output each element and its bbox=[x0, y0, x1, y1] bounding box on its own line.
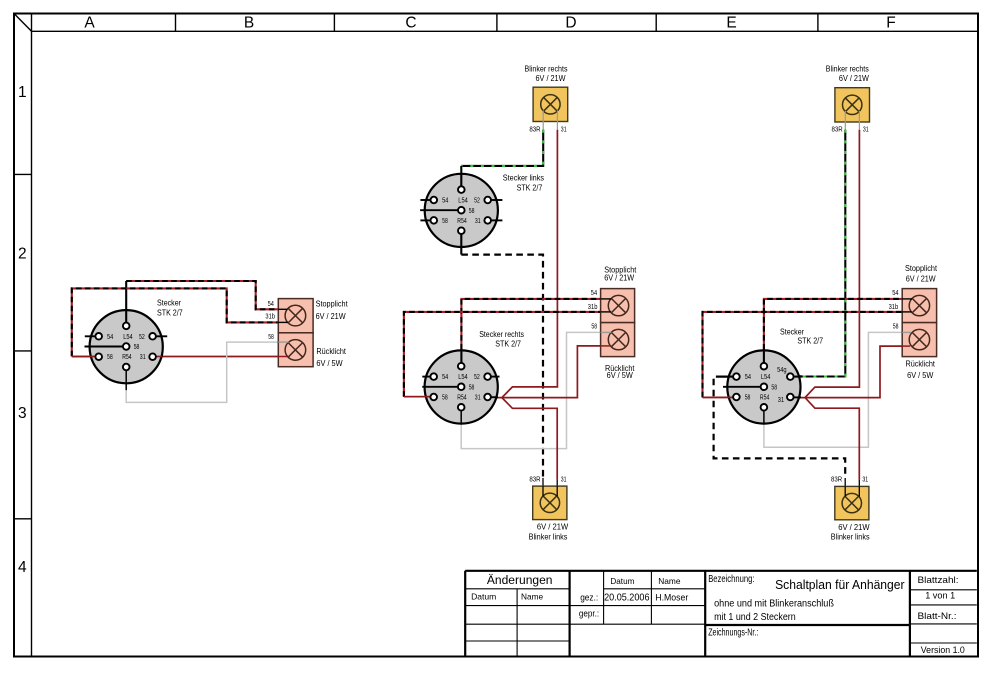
wire green: Blinker rechts 83R to Stecker links top pin bbox=[461, 130, 543, 166]
svg-text:Blinker links: Blinker links bbox=[831, 532, 870, 541]
svg-text:52: 52 bbox=[139, 334, 145, 341]
svg-text:54: 54 bbox=[892, 290, 898, 297]
frame top row divider bbox=[32, 30, 979, 32]
svg-text:Blatt-Nr.:: Blatt-Nr.: bbox=[918, 610, 957, 621]
svg-text:3: 3 bbox=[18, 405, 27, 422]
svg-text:6V / 5W: 6V / 5W bbox=[316, 359, 343, 368]
svg-text:STK 2/7: STK 2/7 bbox=[157, 308, 183, 317]
svg-text:52: 52 bbox=[474, 374, 480, 381]
svg-text:H.Moser: H.Moser bbox=[655, 592, 689, 603]
svg-text:Version 1.0: Version 1.0 bbox=[921, 645, 965, 656]
lamp symbol Ruecklicht right bbox=[909, 329, 929, 349]
lamp box Stopplicht/Ruecklicht right bbox=[902, 289, 936, 323]
lamp symbol Blinker links middle bbox=[540, 493, 559, 512]
column tick C/D bbox=[496, 14, 498, 32]
svg-text:Zeichnungs-Nr.:: Zeichnungs-Nr.: bbox=[708, 628, 758, 639]
svg-text:6V / 5W: 6V / 5W bbox=[907, 371, 934, 380]
lamp symbol Stopplicht right bbox=[909, 295, 929, 315]
svg-text:58: 58 bbox=[771, 385, 777, 392]
svg-text:Datum: Datum bbox=[471, 592, 496, 602]
svg-text:31: 31 bbox=[561, 476, 567, 483]
title block Blattzahl row lines bbox=[910, 589, 977, 591]
column tick E/F bbox=[817, 14, 819, 32]
svg-text:Änderungen: Änderungen bbox=[487, 575, 553, 587]
terminal stubs inside left box bbox=[278, 308, 287, 310]
wire red: Blinker rechts 31 down to pin 31 (fan) right bbox=[795, 130, 859, 398]
svg-text:58: 58 bbox=[469, 385, 475, 392]
svg-text:R54: R54 bbox=[122, 354, 132, 361]
svg-text:31b: 31b bbox=[265, 314, 275, 321]
title block horizontal row lines bbox=[465, 588, 569, 590]
svg-text:83R: 83R bbox=[529, 476, 540, 483]
svg-text:6V / 21W: 6V / 21W bbox=[537, 522, 569, 531]
wire red: left corner to pin 58 bbox=[72, 356, 99, 358]
column tick A/B bbox=[175, 14, 177, 32]
column tick B/C bbox=[333, 14, 335, 32]
svg-text:Name: Name bbox=[521, 592, 543, 602]
svg-text:83R: 83R bbox=[832, 126, 843, 133]
svg-text:gez.:: gez.: bbox=[580, 593, 598, 603]
svg-text:L54: L54 bbox=[123, 334, 133, 341]
svg-text:ohne und mit Blinkeranschluß: ohne und mit Blinkeranschluß bbox=[714, 599, 834, 610]
svg-text:31: 31 bbox=[862, 476, 868, 483]
svg-text:Stopplicht: Stopplicht bbox=[316, 300, 349, 309]
frame left column divider bbox=[31, 14, 33, 657]
wire gray: Stecker rechts bottom pin to Ruecklicht 58 middle bbox=[460, 410, 462, 423]
column tick D/E bbox=[655, 14, 657, 32]
svg-text:58: 58 bbox=[442, 218, 448, 225]
wire red: fan down to Blinker links 31 bbox=[502, 398, 557, 480]
title block vertical Aenderungen/gez boundary bbox=[568, 571, 570, 657]
svg-text:54: 54 bbox=[442, 374, 448, 381]
svg-text:B: B bbox=[244, 14, 254, 31]
svg-text:2: 2 bbox=[18, 246, 27, 263]
svg-text:58: 58 bbox=[893, 324, 899, 331]
svg-text:A: A bbox=[84, 14, 95, 31]
svg-text:54: 54 bbox=[745, 374, 751, 381]
wire green: Blinker rechts 83R to pin 54g bbox=[802, 130, 845, 377]
wire red: fan down to Blinker links 31 right bbox=[805, 398, 859, 480]
lamp box Blinker rechts middle bbox=[533, 87, 568, 121]
svg-text:1: 1 bbox=[18, 84, 27, 101]
svg-text:6V / 21W: 6V / 21W bbox=[838, 523, 870, 532]
lamp symbol Stopplicht left bbox=[285, 305, 306, 326]
svg-text:Stecker rechts: Stecker rechts bbox=[479, 330, 524, 339]
terminal stubs inside right box bbox=[902, 298, 912, 300]
wire red: fan to Ruecklicht right bbox=[805, 346, 910, 398]
svg-text:R54: R54 bbox=[457, 395, 467, 402]
svg-text:Stopplicht: Stopplicht bbox=[905, 264, 938, 273]
svg-text:58: 58 bbox=[107, 354, 113, 361]
wire gray: connector bottom pin to Ruecklicht 58 bbox=[125, 370, 127, 390]
wire red: fan to Ruecklicht middle bbox=[502, 346, 611, 398]
row tick 1/2 bbox=[14, 173, 32, 175]
svg-text:Blinker rechts: Blinker rechts bbox=[826, 64, 869, 73]
svg-text:31: 31 bbox=[475, 395, 481, 402]
svg-text:54: 54 bbox=[591, 290, 597, 297]
wire pair: Stopplicht 31b middle to Stecker rechts pin 58 bbox=[404, 396, 434, 398]
terminal stubs Blinker rechts right bbox=[844, 111, 846, 130]
svg-text:6V / 21W: 6V / 21W bbox=[316, 312, 346, 321]
title block vertical Datum/Name divider bbox=[516, 589, 518, 657]
svg-text:58: 58 bbox=[745, 395, 751, 402]
svg-text:L54: L54 bbox=[458, 198, 468, 205]
svg-text:STK 2/7: STK 2/7 bbox=[517, 184, 543, 193]
svg-text:58: 58 bbox=[469, 208, 475, 215]
svg-text:Name: Name bbox=[658, 576, 680, 586]
connector STK 2/7 right (Stecker) bbox=[727, 350, 800, 423]
wire red: Blinker rechts 31 down to connector pin 31 (fan) bbox=[492, 130, 557, 398]
row tick 3/4 bbox=[14, 518, 32, 520]
svg-text:31b: 31b bbox=[588, 304, 598, 311]
svg-text:Rücklicht: Rücklicht bbox=[905, 360, 935, 369]
svg-text:R54: R54 bbox=[457, 218, 467, 225]
svg-text:1 von 1: 1 von 1 bbox=[925, 591, 955, 602]
svg-text:Rücklicht: Rücklicht bbox=[316, 347, 346, 356]
svg-text:6V / 21W: 6V / 21W bbox=[906, 275, 936, 284]
wire pair stop light feed: connector top pin to Stopplicht 54 bbox=[125, 281, 127, 323]
svg-text:54: 54 bbox=[442, 198, 448, 205]
svg-text:Datum: Datum bbox=[610, 576, 634, 586]
svg-text:54: 54 bbox=[107, 334, 113, 341]
lamp symbol Blinker links right bbox=[842, 493, 861, 512]
svg-text:Stecker: Stecker bbox=[157, 299, 181, 308]
wire pair: Stopplicht 31b right to pin 58 bbox=[703, 396, 737, 398]
lamp box Blinker rechts right bbox=[835, 88, 870, 122]
lamp box Stopplicht/Ruecklicht left bbox=[278, 299, 313, 333]
wire black dashed: pin 54 to Blinker links 83R right bbox=[723, 376, 734, 378]
terminal stubs inside middle box bbox=[601, 298, 612, 300]
svg-text:52: 52 bbox=[474, 198, 480, 205]
svg-text:Blinker rechts: Blinker rechts bbox=[525, 64, 568, 73]
wire pair: Stopplicht 54 right to top pin bbox=[763, 350, 765, 366]
frame corner diagonal bbox=[14, 14, 32, 32]
svg-text:STK 2/7: STK 2/7 bbox=[797, 336, 823, 345]
terminal stubs Blinker links middle bbox=[542, 486, 544, 496]
wire red: pin 31 to Ruecklicht lamp bbox=[153, 356, 287, 358]
svg-text:Stecker links: Stecker links bbox=[503, 174, 544, 183]
lamp box Blinker links right bbox=[835, 486, 869, 519]
svg-text:STK 2/7: STK 2/7 bbox=[495, 339, 521, 348]
svg-text:4: 4 bbox=[18, 559, 27, 576]
svg-text:Blattzahl:: Blattzahl: bbox=[918, 574, 959, 585]
svg-text:L54: L54 bbox=[458, 374, 468, 381]
svg-text:83R: 83R bbox=[529, 126, 540, 133]
lamp box Blinker links middle bbox=[533, 486, 567, 519]
svg-text:31: 31 bbox=[475, 218, 481, 225]
svg-text:Stecker: Stecker bbox=[780, 328, 804, 337]
svg-text:Blinker links: Blinker links bbox=[529, 533, 568, 542]
title block outline bbox=[465, 570, 977, 572]
svg-text:F: F bbox=[886, 14, 895, 31]
terminal stubs Blinker rechts middle bbox=[542, 111, 544, 130]
svg-text:C: C bbox=[405, 14, 416, 31]
svg-text:31b: 31b bbox=[889, 304, 899, 311]
svg-text:31: 31 bbox=[863, 126, 869, 133]
wire pair: connector pin 58 to Stopplicht 31b bbox=[72, 288, 278, 356]
lamp symbol Blinker rechts middle bbox=[541, 95, 560, 114]
wire gray: bottom pin to Ruecklicht 58 right bbox=[763, 410, 765, 423]
svg-text:58: 58 bbox=[591, 324, 597, 331]
title block vertical Bezeichnung boundary bbox=[704, 571, 706, 657]
lamp symbol Blinker rechts right bbox=[843, 95, 862, 114]
svg-text:gepr.:: gepr.: bbox=[579, 609, 599, 619]
svg-text:L54: L54 bbox=[761, 374, 771, 381]
svg-text:31: 31 bbox=[140, 354, 146, 361]
svg-text:54g: 54g bbox=[777, 367, 787, 374]
wire pair: Stopplicht 54 middle to Stecker rechts top pin bbox=[460, 350, 462, 366]
svg-text:Schaltplan für Anhänger: Schaltplan für Anhänger bbox=[775, 577, 905, 592]
connector STK 2/7 left (Stecker) bbox=[90, 310, 163, 383]
svg-text:6V / 5W: 6V / 5W bbox=[607, 371, 634, 380]
connector STK 2/7 Stecker links bbox=[425, 174, 498, 247]
svg-text:20.05.2006: 20.05.2006 bbox=[604, 592, 650, 603]
row tick 2/3 bbox=[14, 350, 32, 352]
svg-text:58: 58 bbox=[268, 334, 274, 341]
lamp box Stopplicht/Ruecklicht middle bbox=[601, 289, 635, 323]
svg-text:R54: R54 bbox=[760, 395, 770, 402]
lamp symbol Stopplicht middle bbox=[608, 295, 628, 315]
lamp symbol Ruecklicht middle bbox=[608, 329, 628, 349]
wire black dashed: Stecker links bottom pin to Blinker links 83R bbox=[460, 235, 462, 255]
svg-text:6V / 21W: 6V / 21W bbox=[604, 274, 634, 283]
terminal stubs Blinker links right bbox=[844, 486, 846, 496]
svg-text:mit 1 und 2 Steckern: mit 1 und 2 Steckern bbox=[714, 612, 796, 623]
svg-text:54: 54 bbox=[268, 301, 274, 308]
title block vertical gez/Datum bbox=[603, 571, 605, 624]
svg-text:58: 58 bbox=[134, 344, 140, 351]
svg-text:D: D bbox=[565, 14, 576, 31]
title block vertical Blattzahl boundary bbox=[909, 571, 911, 657]
svg-text:58: 58 bbox=[442, 395, 448, 402]
svg-text:31: 31 bbox=[561, 126, 567, 133]
svg-text:83R: 83R bbox=[831, 476, 842, 483]
lamp symbol Ruecklicht left bbox=[285, 340, 306, 361]
title block vertical Datum/Name mid bbox=[650, 571, 652, 624]
svg-text:E: E bbox=[726, 14, 736, 31]
svg-text:6V / 21W: 6V / 21W bbox=[536, 74, 566, 83]
svg-text:31: 31 bbox=[778, 397, 784, 404]
svg-text:Bezeichnung:: Bezeichnung: bbox=[708, 574, 754, 585]
svg-text:6V / 21W: 6V / 21W bbox=[839, 74, 869, 83]
connector STK 2/7 Stecker rechts bbox=[425, 350, 498, 423]
